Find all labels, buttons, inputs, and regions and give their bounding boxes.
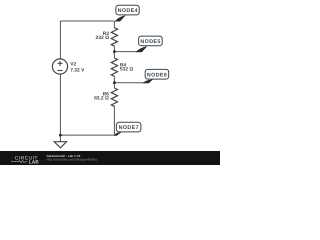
svg-text:V2: V2: [70, 62, 76, 68]
svg-text:7.32 V: 7.32 V: [70, 67, 85, 73]
svg-text:LAB: LAB: [29, 159, 39, 165]
svg-text:NODE5: NODE5: [140, 39, 160, 45]
svg-text:232 Ω: 232 Ω: [96, 35, 110, 41]
svg-text:NODE6: NODE6: [147, 72, 167, 78]
svg-text:83.2 Ω: 83.2 Ω: [94, 96, 109, 102]
svg-text:NODE4: NODE4: [118, 8, 138, 14]
svg-text:NODE7: NODE7: [119, 125, 139, 131]
svg-text:532 Ω: 532 Ω: [120, 67, 134, 73]
svg-text:http://circuitlab.com/c8kqvqw4: http://circuitlab.com/c8kqvqw43c6kc: [47, 158, 98, 162]
